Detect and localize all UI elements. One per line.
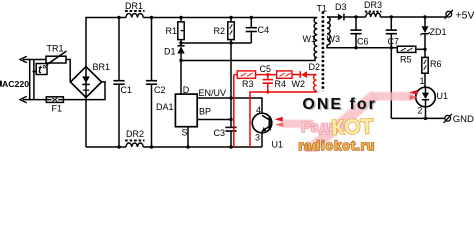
svg-text:1: 1: [420, 76, 425, 86]
resistor R2: [228, 18, 234, 99]
node AC arrow bottom: [20, 96, 27, 103]
thermistor TR1: [33, 51, 67, 75]
junction R2 top rail: [229, 16, 232, 19]
resistor R3: [237, 71, 255, 78]
terminal GND: [444, 114, 452, 123]
svg-text:EN/UV: EN/UV: [199, 88, 227, 98]
bridge rectifier BR1: [70, 67, 101, 98]
svg-text:C1: C1: [121, 85, 133, 95]
wire U1 pin3 to bottom rail: [261, 131, 263, 147]
wire bottom rail right: [119, 146, 262, 148]
capacitor C2: [146, 18, 157, 148]
svg-text:BR1: BR1: [93, 62, 111, 72]
junction EN/UV R2: [229, 96, 232, 99]
wire S pin: [187, 127, 189, 147]
junction C7 secondary rail: [390, 15, 393, 18]
diode D2: [300, 71, 316, 78]
wire W3 top to D3: [327, 16, 338, 18]
junction R2 clamp node: [229, 41, 232, 44]
wire top rail middle: [119, 17, 317, 19]
svg-text:DR1: DR1: [125, 1, 143, 11]
wire TR1 to BR1 left: [66, 60, 70, 82]
svg-text:t°: t°: [38, 64, 47, 76]
svg-text:+5V: +5V: [456, 10, 474, 22]
junction C6 ground rail: [354, 46, 357, 49]
resistor R4: [277, 71, 292, 78]
wire D pin: [180, 61, 182, 95]
junction U1 pin2 GND rail: [424, 117, 427, 120]
wire secondary rail D3 to DR3: [344, 16, 366, 18]
svg-text:W1: W1: [303, 34, 317, 44]
wire R3 to R4: [256, 74, 277, 76]
watermark text radiokot.ru: [299, 139, 376, 153]
IC DA1: [175, 94, 197, 127]
watermark arrows at transistor: [275, 117, 284, 127]
node drain: [179, 59, 182, 62]
transformer T1 winding W1: [314, 18, 317, 58]
resistor R6: [422, 49, 428, 87]
junction R1 clamp node: [179, 41, 182, 44]
svg-text:C4: C4: [258, 25, 270, 35]
svg-text:D2: D2: [309, 62, 321, 72]
junction BP C3: [229, 118, 232, 121]
optocoupler U1 transistor side: [252, 113, 272, 133]
wire BR1 top to rail: [86, 18, 119, 67]
svg-text:S: S: [182, 128, 188, 138]
svg-text:R2: R2: [214, 26, 226, 36]
watermark text Radio: [301, 115, 374, 141]
wire AC bottom line: [23, 99, 46, 101]
svg-text:ZD1: ZD1: [430, 27, 447, 37]
wire red node A drop: [233, 75, 235, 147]
fuse F1: [46, 97, 63, 103]
svg-text:R6: R6: [430, 59, 442, 69]
resistor R1: [178, 18, 184, 46]
junction C1 top rail: [117, 16, 120, 19]
wire W2 return: [250, 91, 317, 147]
svg-text:BP: BP: [199, 107, 211, 117]
junction ZD1 secondary rail: [423, 15, 426, 18]
inductor DR2: [125, 141, 144, 148]
capacitor C3: [225, 98, 236, 147]
junction C3 bottom rail: [229, 145, 232, 148]
svg-text:R5: R5: [400, 55, 412, 65]
wire secondary rail to +5V: [381, 16, 447, 18]
svg-text:D3: D3: [335, 2, 347, 12]
svg-text:C3: C3: [214, 128, 226, 138]
junction C4 top rail: [250, 16, 253, 19]
svg-text:C5: C5: [260, 64, 272, 74]
svg-text:R1: R1: [166, 26, 178, 36]
wire U1 pin2 to GND rail: [425, 107, 427, 119]
svg-text:W3: W3: [327, 34, 341, 44]
capacitor C5: [263, 75, 273, 92]
svg-text:DA1: DA1: [156, 102, 174, 112]
red added network: [234, 71, 317, 147]
junction C1 bottom rail: [117, 145, 120, 148]
watermark pink band to transistor: [283, 120, 314, 128]
wire GND drop: [390, 48, 392, 119]
junction C6 secondary rail: [354, 15, 357, 18]
svg-text:R4: R4: [275, 79, 287, 89]
svg-text:DR3: DR3: [364, 0, 382, 10]
diode D3: [338, 14, 344, 21]
svg-text:3: 3: [255, 133, 260, 143]
capacitor C6: [350, 17, 361, 48]
wire AC vertical pair: [30, 60, 34, 100]
svg-text:2: 2: [418, 106, 423, 116]
wire GND rail: [391, 117, 444, 119]
svg-text:4: 4: [256, 105, 261, 115]
svg-text:AC220: AC220: [2, 79, 29, 89]
svg-text:F1: F1: [52, 104, 63, 114]
wire bottom rail left: [86, 146, 119, 148]
capacitor C7: [386, 17, 397, 48]
wire clamp bottom: [181, 42, 251, 44]
junction C2 top rail: [150, 16, 153, 19]
svg-text:GND: GND: [453, 114, 474, 125]
wire drain node: [181, 57, 315, 60]
junction C5 bottom red: [266, 90, 269, 93]
wire R4 to D2: [292, 74, 300, 76]
wire BP pin: [197, 119, 231, 121]
svg-text:D1: D1: [164, 47, 176, 57]
svg-text:C7: C7: [388, 37, 400, 47]
transformer T1 winding W2: [314, 75, 317, 91]
capacitor C1: [113, 18, 124, 148]
optocoupler U1 LED side: [416, 87, 436, 107]
inductor DR1: [125, 11, 144, 18]
junction C5 top red: [266, 73, 269, 76]
resistor R5: [397, 46, 425, 52]
junction C2 bottom rail: [150, 145, 153, 148]
wire F1 to BR1 right: [63, 82, 105, 100]
svg-text:DR2: DR2: [126, 129, 144, 139]
transformer T1 winding W3: [327, 17, 330, 45]
node AC arrow top: [20, 56, 27, 63]
svg-text:radiokot.ru: radiokot.ru: [299, 139, 376, 152]
wire W3 bottom rail: [327, 45, 397, 48]
wire AC top line: [23, 59, 46, 61]
watermark text ONE for: [302, 96, 378, 114]
svg-text:W2: W2: [292, 79, 306, 89]
capacitor C4: [246, 18, 257, 44]
svg-text:КОТ: КОТ: [331, 115, 374, 139]
diode D1: [177, 46, 184, 61]
junction R1 top rail: [179, 16, 182, 19]
svg-text:ONE for: ONE for: [302, 96, 376, 113]
svg-text:C6: C6: [357, 37, 369, 47]
watermark pink diagonal band: [302, 91, 378, 158]
watermark arrows at LED: [409, 90, 418, 100]
watermark pink band to LED: [372, 92, 415, 101]
svg-text:TR1: TR1: [47, 44, 64, 54]
svg-text:D: D: [183, 85, 190, 95]
zener diode ZD1: [420, 17, 429, 49]
wire BR1 bottom to rail: [85, 98, 87, 148]
wire EN/UV pin: [197, 98, 262, 115]
transformer T1 core: [322, 12, 325, 92]
svg-text:T1: T1: [317, 4, 328, 14]
svg-text:C2: C2: [154, 85, 166, 95]
inductor DR3: [365, 12, 381, 17]
wire red top: [234, 74, 237, 76]
svg-text:U1: U1: [437, 91, 449, 101]
svg-text:U1: U1: [272, 140, 284, 150]
node ZD1 R5 R6: [423, 48, 426, 51]
junction C7 ground rail: [390, 46, 393, 49]
svg-text:R3: R3: [242, 79, 254, 89]
junction S pin bottom rail: [186, 145, 189, 148]
terminal +5V: [445, 10, 453, 19]
